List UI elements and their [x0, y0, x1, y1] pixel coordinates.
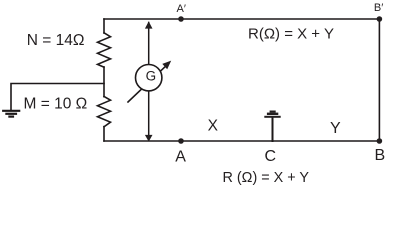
galvanometer diagonal variable arrow line	[128, 64, 169, 103]
svg-text:A′: A′	[177, 3, 186, 15]
resistor N	[98, 33, 111, 67]
node dot A	[178, 138, 184, 144]
svg-text:G: G	[146, 68, 157, 83]
wire ground branch	[11, 84, 104, 111]
wire top A' to B'	[104, 18, 379, 20]
svg-text:B′: B′	[374, 2, 383, 14]
resistor M	[98, 97, 111, 127]
arrowhead diagonal (variable arrow)	[162, 61, 171, 70]
galvanometer G circle	[136, 65, 162, 91]
galvanometer vertical arrow line	[148, 23, 150, 139]
svg-text:B: B	[375, 147, 386, 164]
jockey contact C stem	[272, 118, 274, 142]
svg-text:X: X	[208, 118, 219, 135]
wire left bottom segment	[103, 127, 105, 141]
node dot A'	[178, 16, 184, 22]
arrowhead up (to top wire)	[145, 21, 153, 28]
jockey contact C bars	[264, 111, 280, 118]
svg-text:R (Ω) = X + Y: R (Ω) = X + Y	[223, 170, 310, 186]
svg-text:C: C	[265, 148, 277, 165]
wire left middle segment	[103, 67, 105, 97]
svg-text:R(Ω) = X + Y: R(Ω) = X + Y	[248, 25, 334, 42]
node dot B	[377, 138, 383, 144]
svg-text:Y: Y	[330, 120, 341, 137]
svg-text:N = 14Ω: N = 14Ω	[27, 32, 85, 49]
ground	[3, 111, 19, 117]
svg-text:M = 10 Ω: M = 10 Ω	[24, 95, 88, 112]
wire bottom A to B	[104, 140, 379, 142]
svg-text:A: A	[175, 148, 186, 165]
wire right vertical B' to B	[378, 19, 380, 141]
wire left top segment	[103, 19, 105, 33]
node dot B'	[377, 16, 383, 22]
arrowhead down (to bottom wire)	[145, 135, 153, 142]
